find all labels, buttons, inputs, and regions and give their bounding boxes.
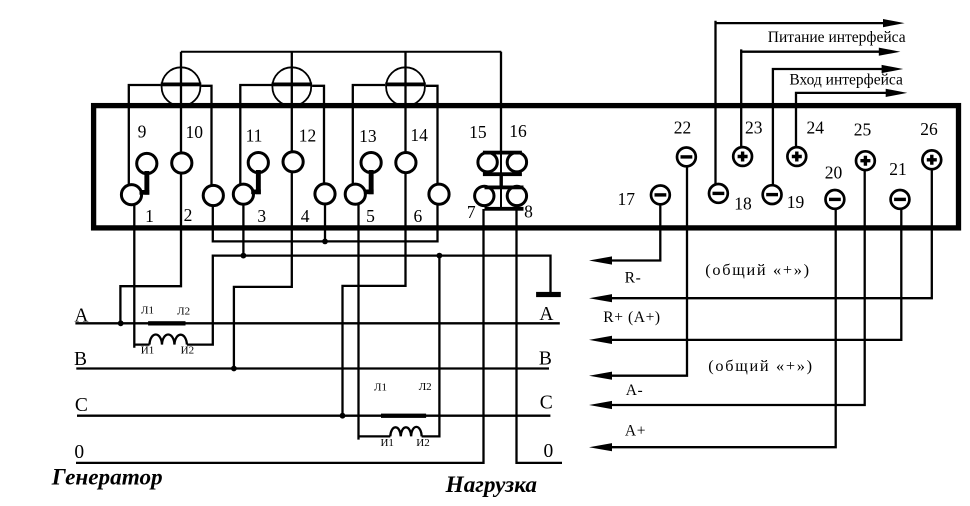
svg-text:8: 8 — [524, 202, 533, 222]
wire between terminals 7 and 8 — [500, 187, 502, 209]
wire terminal 17 to R- arrow row — [611, 195, 660, 261]
svg-text:15: 15 — [469, 122, 487, 142]
svg-text:14: 14 — [410, 125, 428, 145]
arrowhead A- — [589, 372, 612, 380]
svg-text:В: В — [539, 349, 552, 370]
svg-text:R-: R- — [625, 270, 642, 287]
svg-text:С: С — [75, 395, 88, 416]
junction bus1 x terminal4 — [322, 239, 328, 245]
svg-text:17: 17 — [617, 189, 635, 209]
svg-text:18: 18 — [734, 193, 752, 213]
junction phase B voltage tap — [231, 366, 237, 372]
svg-text:2: 2 — [184, 205, 193, 225]
wire neutral link column to terminals 15-16 — [500, 52, 502, 151]
wire terminal 3 drop to bus 2 — [242, 194, 244, 255]
wire top interconnect line (voltage common) — [181, 51, 501, 53]
terminal 5 — [345, 184, 365, 204]
svg-text:Вход интерфейса: Вход интерфейса — [789, 71, 903, 88]
wire terminal 18 up to interface power arrow row — [716, 21, 885, 194]
svg-text:10: 10 — [186, 122, 204, 142]
svg-text:(общий «+»): (общий «+») — [705, 260, 810, 279]
link terminal 9 to 1 — [144, 171, 149, 195]
svg-text:Нагрузка: Нагрузка — [445, 472, 538, 498]
wire voltage column phase A: fuse FU1 column through terminal 10 down to phase A tap — [120, 52, 181, 324]
svg-text:R+ (A+): R+ (A+) — [603, 309, 660, 326]
arrowhead R+ — [589, 294, 612, 302]
wire between terminals 15 and 16 — [500, 152, 502, 174]
svg-text:Л1: Л1 — [374, 381, 387, 393]
terminal 3 — [233, 184, 253, 204]
terminal 6 — [429, 184, 449, 204]
svg-text:1: 1 — [145, 206, 154, 226]
svg-text:7: 7 — [467, 202, 476, 222]
svg-text:А: А — [539, 304, 553, 325]
terminal 23 (plus) — [733, 147, 752, 166]
terminal 21 (minus) — [891, 190, 910, 209]
arrowhead row3 — [589, 336, 612, 344]
svg-text:21: 21 — [889, 159, 907, 179]
wire terminal 19 up to interface input arrow row — [773, 69, 882, 195]
svg-text:И2: И2 — [181, 345, 194, 357]
svg-text:Питание интерфейса: Питание интерфейса — [768, 29, 906, 46]
svg-text:13: 13 — [359, 126, 377, 146]
terminal 11 — [248, 153, 268, 173]
wire neutral 0 load side up to terminal 8 — [517, 209, 563, 463]
arrowhead R- — [589, 256, 612, 264]
terminal 13 — [361, 153, 381, 173]
wire fuse FU2 right lead down to terminal 4 — [312, 86, 324, 194]
terminal 17 (minus) — [651, 186, 670, 205]
meter terminal block outline — [94, 106, 959, 228]
current transformer TA2 primary bar L1-L2 — [381, 414, 426, 418]
svg-text:A-: A- — [626, 382, 644, 399]
current transformer TA1 primary bar L1-L2 — [148, 321, 185, 325]
arrowhead interface input 1 — [882, 65, 904, 73]
arrowhead A+ — [589, 443, 612, 451]
wire terminal 25 to fifth arrow row — [611, 161, 865, 405]
svg-text:19: 19 — [787, 192, 805, 212]
wire phase B — [76, 367, 549, 369]
arrowhead row5 — [589, 401, 612, 409]
terminal 4 — [315, 184, 335, 204]
svg-text:3: 3 — [257, 206, 266, 226]
svg-text:В: В — [74, 349, 87, 370]
terminal 9 — [137, 153, 157, 173]
svg-text:С: С — [540, 393, 553, 414]
junction phase C voltage tap — [340, 413, 346, 419]
wire terminal 5 down to CT TA2 secondary I1 — [359, 194, 391, 439]
wire phase C — [77, 415, 550, 417]
arrowhead interface input 2 — [886, 89, 908, 97]
fuse F2 (phase B voltage) — [272, 67, 311, 106]
fuse F1 (phase A voltage) — [162, 67, 201, 106]
wire CT TA2 secondary I2 riser to bus 2 — [422, 256, 440, 437]
svg-text:5: 5 — [366, 206, 375, 226]
svg-text:(общий «+»): (общий «+») — [708, 356, 813, 375]
svg-text:A+: A+ — [625, 423, 646, 440]
svg-text:16: 16 — [509, 121, 527, 141]
svg-text:9: 9 — [138, 121, 147, 141]
wire terminal 4 drop to bus 1 — [324, 194, 326, 242]
wire voltage column phase C: fuse FU3 column through terminal 14 down to phase C tap — [343, 52, 406, 416]
terminal 26 (plus) — [922, 150, 941, 169]
terminal 18 (minus) — [709, 184, 728, 203]
wire neutral 0 generator side up to terminal 7 — [76, 209, 484, 463]
junction bus2 x TA2-I2 — [437, 253, 443, 259]
terminal 19 (minus) — [763, 185, 782, 204]
wire fuse FU1 right lead down to terminal 2 circle — [201, 86, 211, 196]
arrowhead interface power 1 — [883, 19, 905, 27]
junction bus2 x terminal3 — [241, 253, 247, 259]
link terminal 11 to 3 — [256, 170, 261, 194]
junction phase A voltage tap — [118, 320, 124, 326]
svg-text:0: 0 — [544, 441, 554, 462]
link terminal 13 to 5 — [369, 170, 374, 194]
current transformer TA1 secondary coil — [150, 335, 187, 345]
svg-text:23: 23 — [745, 118, 763, 138]
svg-text:Л2: Л2 — [177, 305, 190, 317]
svg-text:А: А — [74, 305, 88, 326]
wire terminal 21 to third arrow row — [611, 199, 901, 340]
svg-text:Генератор: Генератор — [51, 465, 163, 491]
fuse F3 (phase C voltage) — [386, 67, 425, 106]
neutral link terminals 7-8 lower pair — [475, 186, 494, 205]
svg-text:И2: И2 — [416, 437, 429, 449]
wire terminal 26 to R+ arrow row — [611, 160, 932, 298]
link bar between 15-16 and 7-8 — [500, 175, 503, 188]
wire terminal 23 up to second interface row — [741, 49, 880, 156]
wire phase A (generator to load) — [75, 322, 559, 324]
wire terminal 24 up to fourth interface row — [796, 93, 886, 157]
wire fuse FU3 right lead down to terminal 6 — [426, 86, 438, 194]
terminal 22 (minus) — [677, 148, 696, 167]
svg-text:11: 11 — [246, 126, 263, 146]
svg-text:20: 20 — [825, 163, 843, 183]
terminal 24 (plus) — [787, 147, 806, 166]
wire fuse FU1 left lead down to terminal 1 — [129, 85, 161, 195]
wire fuse FU2 left lead down to terminal 3 — [240, 85, 271, 194]
svg-text:Л2: Л2 — [419, 381, 432, 393]
svg-text:6: 6 — [414, 206, 423, 226]
svg-text:22: 22 — [674, 118, 692, 138]
bus 2 output lug (thick bar) — [536, 292, 561, 297]
arrowhead interface power 2 — [879, 48, 901, 56]
svg-text:24: 24 — [806, 118, 824, 138]
terminal 10 — [172, 153, 192, 173]
svg-text:26: 26 — [920, 119, 938, 139]
wire common return bus 2 (I2 common) from CT TA1 I2 to output lug — [187, 256, 551, 345]
svg-text:И1: И1 — [380, 437, 393, 449]
terminal 25 (plus) — [856, 151, 875, 170]
svg-text:0: 0 — [74, 442, 84, 463]
terminal 20 (minus) — [826, 190, 845, 209]
wire terminal 1 down to CT TA1 secondary I1 — [134, 195, 149, 348]
terminal 14 — [396, 153, 416, 173]
svg-text:4: 4 — [301, 206, 310, 226]
neutral link terminals 15-16 upper pair — [478, 153, 497, 172]
wire fuse FU3 left lead down to terminal 5 — [353, 85, 385, 194]
svg-text:25: 25 — [854, 120, 872, 140]
wire voltage column phase B: fuse FU2 column through terminal 12 down to phase B tap — [234, 52, 292, 369]
wire terminal 22 to A- arrow row — [611, 157, 687, 376]
wire common return bus 1 (terminals 2-4-6) below block — [213, 194, 438, 241]
svg-text:12: 12 — [299, 126, 317, 146]
terminal 12 — [283, 152, 303, 172]
terminal 2 — [203, 185, 223, 205]
wire terminal 20 to A+ arrow row — [611, 199, 836, 447]
terminal 1 — [121, 185, 141, 205]
current transformer TA2 secondary coil — [390, 427, 421, 437]
svg-text:Л1: Л1 — [141, 304, 154, 316]
svg-text:И1: И1 — [141, 345, 154, 357]
